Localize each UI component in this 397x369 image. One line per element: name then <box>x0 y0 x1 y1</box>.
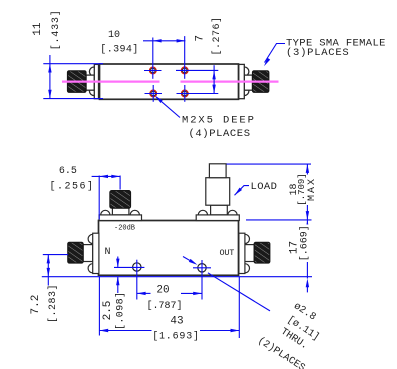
svg-text:[.283]: [.283] <box>47 284 59 323</box>
dimension 2.5 [.098] (hole offset from base) <box>102 257 126 331</box>
dimension 10 [.394] (hole column spacing) <box>100 30 185 55</box>
svg-text:43: 43 <box>170 316 183 328</box>
dimension 20 [.787] (hole spacing) <box>137 284 202 312</box>
svg-text:6.5: 6.5 <box>59 166 77 177</box>
dimension 17 [.669] (body height) <box>246 220 317 293</box>
dimension 11 [.433] (top view height) <box>32 9 103 98</box>
svg-text:MAX: MAX <box>307 177 318 201</box>
top view tapped hole 2 (upper-right) <box>176 36 218 79</box>
bottom view mounting hole 2 <box>193 260 211 300</box>
svg-text:[.669]: [.669] <box>299 225 311 261</box>
top view body outline <box>100 64 239 99</box>
svg-text:2.5: 2.5 <box>102 301 114 321</box>
svg-text:20: 20 <box>156 284 169 296</box>
bottom view left SMA connector <box>68 233 99 273</box>
svg-text:[.709]: [.709] <box>297 173 307 205</box>
svg-text:N: N <box>105 247 111 258</box>
top view pink centerline <box>62 80 279 82</box>
svg-text:7: 7 <box>194 35 206 42</box>
bottom view mounting hole 1 <box>114 260 144 300</box>
svg-text:11: 11 <box>32 22 44 36</box>
bottom datum extension line (body underside) <box>42 276 312 278</box>
svg-text:7.2: 7.2 <box>30 295 42 315</box>
svg-text:[1.693]: [1.693] <box>152 330 200 342</box>
dimension 18 [.709] MAX (load height) <box>227 164 320 220</box>
svg-text:[.394]: [.394] <box>100 43 138 55</box>
svg-text:OUT: OUT <box>220 248 235 258</box>
leader M2X5 DEEP (4)PLACES <box>155 96 256 140</box>
svg-text:[.276]: [.276] <box>211 16 223 55</box>
dimension 7 [.276] (hole row spacing) <box>194 16 223 93</box>
top view right SMA connector (flange, hex-nut lobes, barrel, thread) <box>239 64 269 98</box>
svg-text:(3)PLACES: (3)PLACES <box>286 47 349 59</box>
leader TYPE SMA FEMALE <box>264 37 386 66</box>
dimension 6.5 [.256] (port offset) <box>50 166 121 220</box>
leader and note for mounting holes <box>183 257 322 369</box>
svg-text:[.433]: [.433] <box>50 9 62 50</box>
dimension 7.2 [.283] (connector centreline height) <box>30 255 68 323</box>
svg-text:[.098]: [.098] <box>114 292 126 330</box>
top view tapped hole 4 (lower-right) <box>177 85 219 102</box>
bottom view body outline <box>99 221 239 276</box>
load termination (on top of body, right) <box>196 164 239 221</box>
svg-text:(4)PLACES: (4)PLACES <box>189 128 251 140</box>
svg-text:M2X5 DEEP: M2X5 DEEP <box>182 114 256 126</box>
svg-text:[.256]: [.256] <box>50 180 95 192</box>
bottom view coupled-port SMA connector (vertical, on top of body) <box>99 191 141 221</box>
svg-text:[.787]: [.787] <box>146 300 182 312</box>
bottom view right SMA connector <box>239 233 270 273</box>
top view tapped hole 1 (upper-left) <box>144 38 162 79</box>
dimension 43 [1.693] (overall length) <box>99 277 239 342</box>
top view tapped hole 3 (lower-left) <box>145 85 163 102</box>
svg-text:10: 10 <box>108 30 120 41</box>
svg-text:LOAD: LOAD <box>251 181 278 193</box>
top view left SMA connector (flange, hex-nut lobes, barrel, thread) <box>68 64 99 98</box>
leader LOAD <box>235 181 278 195</box>
svg-text:-20dB: -20dB <box>114 224 135 232</box>
